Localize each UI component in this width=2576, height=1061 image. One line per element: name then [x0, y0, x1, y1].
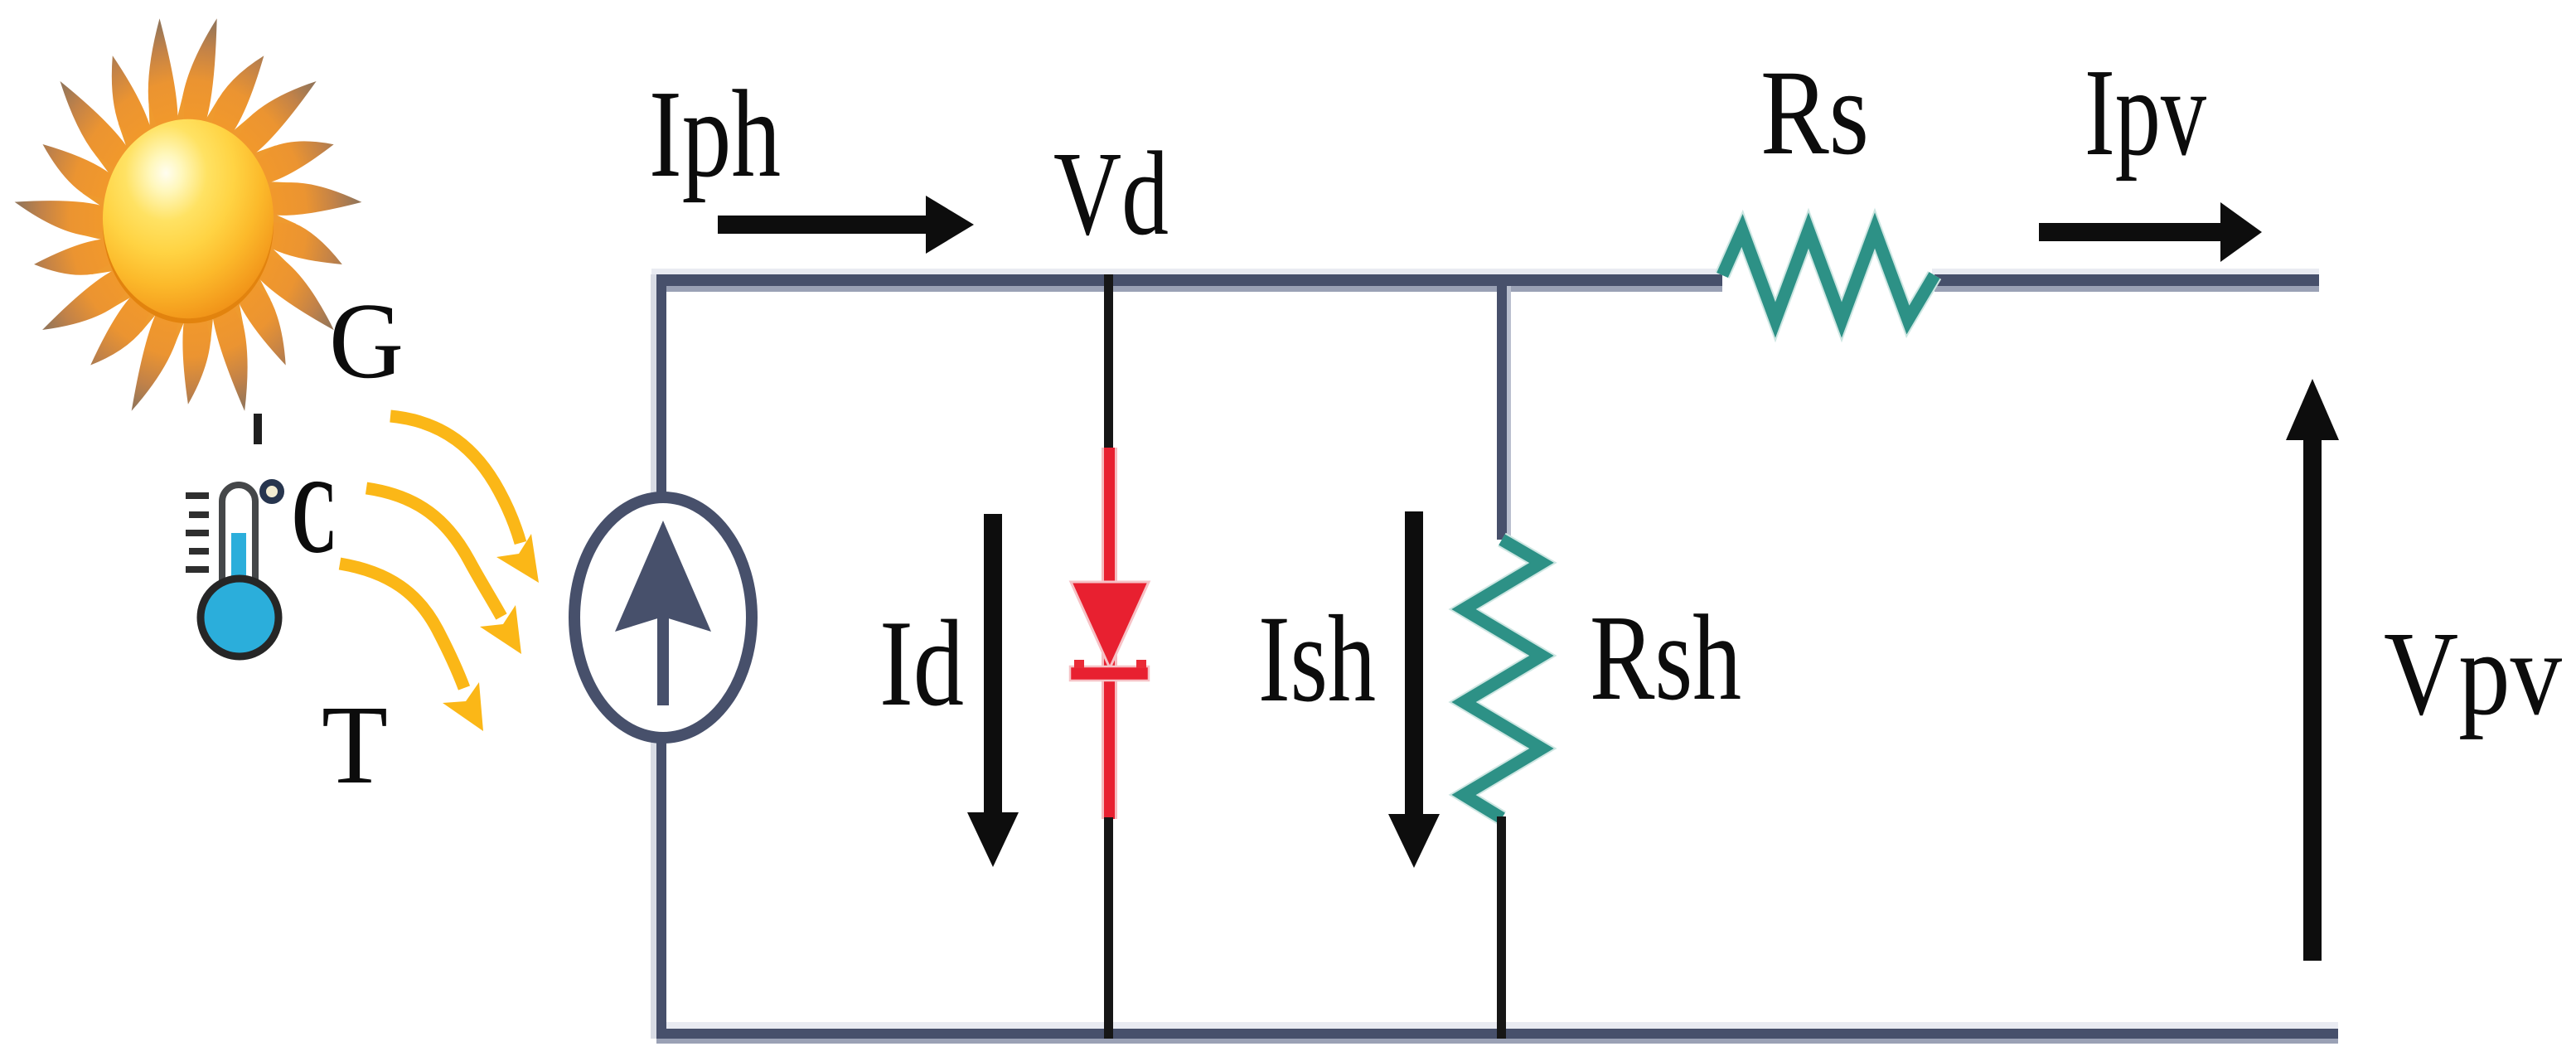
wire: left vertical (current source branch): [651, 274, 656, 1039]
wire: bottom return rail: [651, 1022, 2338, 1029]
svg-text:Id: Id: [879, 595, 964, 732]
svg-text:Vd: Vd: [1053, 128, 1169, 260]
svg-text:Vpv: Vpv: [2384, 608, 2562, 740]
wire: Rsh branch lower (black): [1497, 816, 1506, 1039]
wire: diode branch upper (black): [1104, 274, 1113, 448]
diode cathode bar: [1070, 666, 1149, 681]
svg-text:C: C: [292, 458, 337, 575]
sun icon (irradiance source): [15, 18, 362, 411]
thermometer tube: [222, 485, 255, 601]
resistor Rs (teal zigzag, horizontal on top rail): [1722, 230, 1934, 320]
diode triangle (anode): [1071, 582, 1149, 668]
thermometer icon (temperature): [186, 485, 278, 656]
svg-text:Ipv: Ipv: [2085, 42, 2206, 182]
irradiance arrow 3 (bottom yellow): [340, 564, 464, 688]
degree symbol of °C: [263, 482, 281, 501]
thermometer liquid column: [231, 533, 246, 618]
resistor Rsh (teal zigzag, vertical): [1464, 540, 1542, 818]
wire: top horizontal (node Vd rail): [651, 269, 1725, 274]
thermometer bulb: [201, 579, 278, 656]
voltage arrow Vpv (black, upward): [2303, 440, 2322, 961]
svg-text:Iph: Iph: [649, 64, 781, 203]
current arrow Ish (black, downward): [1405, 511, 1423, 814]
svg-text:Ish: Ish: [1258, 590, 1376, 728]
current arrow Id (black, downward): [984, 514, 1002, 812]
svg-text:G: G: [329, 281, 404, 401]
diode D1 (red): [1070, 448, 1149, 819]
dash between sun and thermometer: [254, 414, 262, 444]
current source arrow: [615, 521, 711, 632]
current source U1 (photo-current Iph): [574, 497, 752, 738]
irradiance arrow 1 (top yellow): [390, 416, 521, 543]
current arrow Iph (black, rightward): [718, 216, 926, 234]
svg-text:T: T: [322, 683, 388, 807]
svg-text:Rs: Rs: [1760, 45, 1869, 180]
wire: Rsh branch upper (slate): [1497, 274, 1507, 540]
current arrow Ipv (black, rightward): [2039, 223, 2220, 241]
svg-text:Rsh: Rsh: [1590, 590, 1741, 726]
wire: diode branch lower (black): [1104, 817, 1113, 1039]
irradiance arrow 2 (middle yellow): [366, 488, 501, 617]
thermometer scale ticks: [186, 492, 209, 573]
